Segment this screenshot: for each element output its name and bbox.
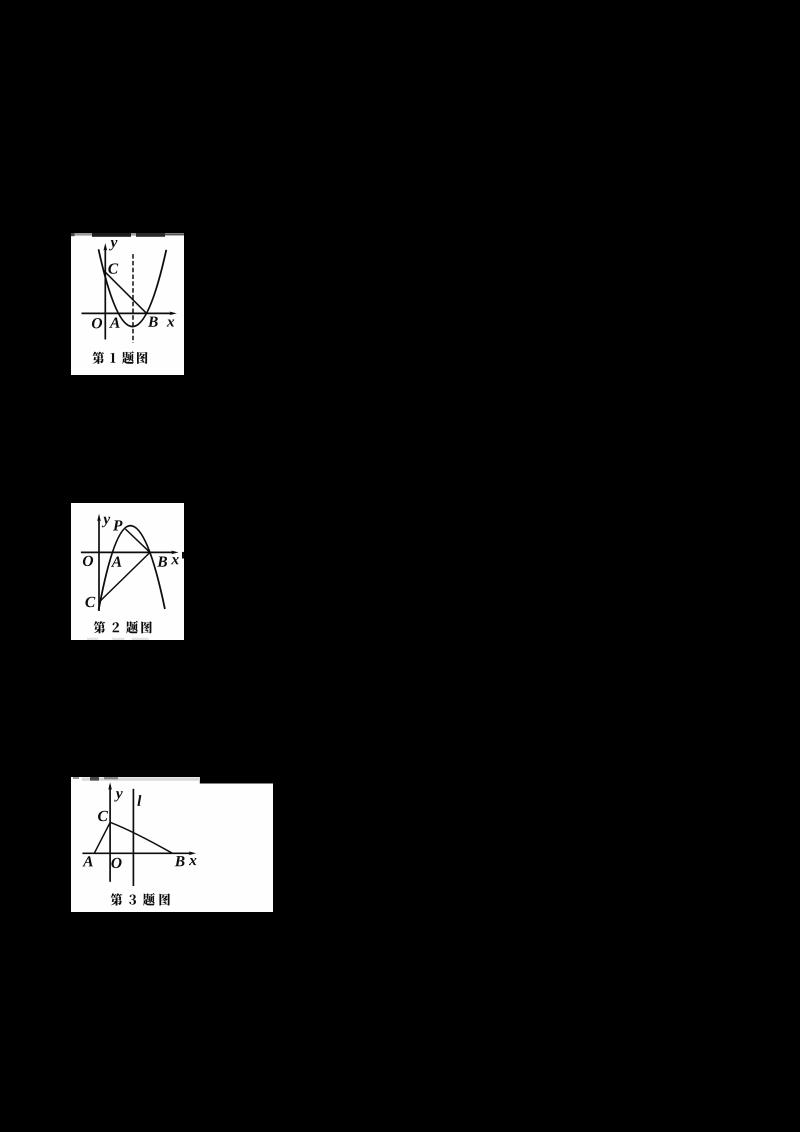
figure 1 x-axis bbox=[82, 312, 172, 314]
figure 3 label x bbox=[189, 858, 197, 865]
figure 2 label x bbox=[171, 557, 179, 564]
figure 1 label C bbox=[108, 263, 118, 273]
figure 3 caption 第3题图 bbox=[111, 893, 170, 906]
figure 2 x-axis arrowhead bbox=[171, 551, 178, 555]
figure 2 white panel bbox=[71, 503, 184, 640]
figure 2 chord P to B bbox=[125, 529, 150, 552]
figure 3 x-axis bbox=[82, 852, 190, 854]
figure 2 y-axis arrowhead bbox=[97, 514, 101, 522]
figure 3 x-axis arrowhead bbox=[189, 851, 196, 855]
figure 2 label y bbox=[102, 517, 110, 527]
figure 3 y-axis arrowhead bbox=[108, 782, 112, 790]
figure 3 label C bbox=[98, 811, 108, 821]
figure 1 parabola bbox=[99, 249, 167, 326]
figure 3 top-right black notch bbox=[200, 777, 273, 784]
figure 2 x-axis bbox=[81, 551, 174, 553]
figure 2 y-axis bbox=[98, 518, 100, 611]
figure 3 label B bbox=[175, 856, 185, 866]
figure 1 label A bbox=[109, 317, 120, 327]
figure 3 line l bbox=[132, 789, 134, 886]
figure 2 label C bbox=[85, 597, 95, 607]
figure 2 label A bbox=[111, 556, 122, 566]
figure 2 label B bbox=[157, 557, 167, 567]
figure 2 label P bbox=[113, 520, 123, 530]
figure 3 white panel bbox=[71, 777, 273, 912]
figure 2 parabola bbox=[99, 526, 165, 610]
figure 1 label y bbox=[109, 240, 117, 250]
figure 1 label x bbox=[167, 319, 175, 326]
figure 2 bottom faint marks bbox=[87, 638, 149, 640]
figure 1 x-axis arrowhead bbox=[169, 312, 176, 316]
figure 3 y-axis bbox=[109, 785, 111, 882]
figure 2 caption 第2题图 bbox=[94, 621, 152, 634]
figure 3 label A bbox=[82, 856, 93, 866]
figure 1 chord C to B bbox=[105, 272, 147, 314]
figure 2 chord C to B bbox=[100, 552, 150, 601]
figure 1 caption 第1题图 bbox=[93, 351, 148, 364]
figure 2 label O bbox=[83, 556, 93, 566]
figure 3 triangle side A-C bbox=[94, 822, 110, 854]
figure 3 label O bbox=[111, 858, 121, 868]
figure 1 dashed axis of symmetry bbox=[132, 254, 134, 343]
figure 3 label l bbox=[137, 795, 141, 806]
figure 1 y-axis arrowhead bbox=[103, 243, 107, 251]
figure 3 triangle side C-B bbox=[110, 822, 172, 853]
figure 1 label O bbox=[92, 318, 102, 328]
figure 1 label B bbox=[148, 317, 158, 327]
figure 3 label y bbox=[114, 791, 122, 801]
figure 1 y-axis bbox=[104, 248, 106, 340]
figure 1 top scan smudge band bbox=[71, 233, 184, 237]
figure 2 right edge tick bbox=[182, 552, 184, 559]
figure 3 top scan smudges bbox=[73, 777, 200, 781]
figure 1 white panel bbox=[71, 233, 184, 375]
